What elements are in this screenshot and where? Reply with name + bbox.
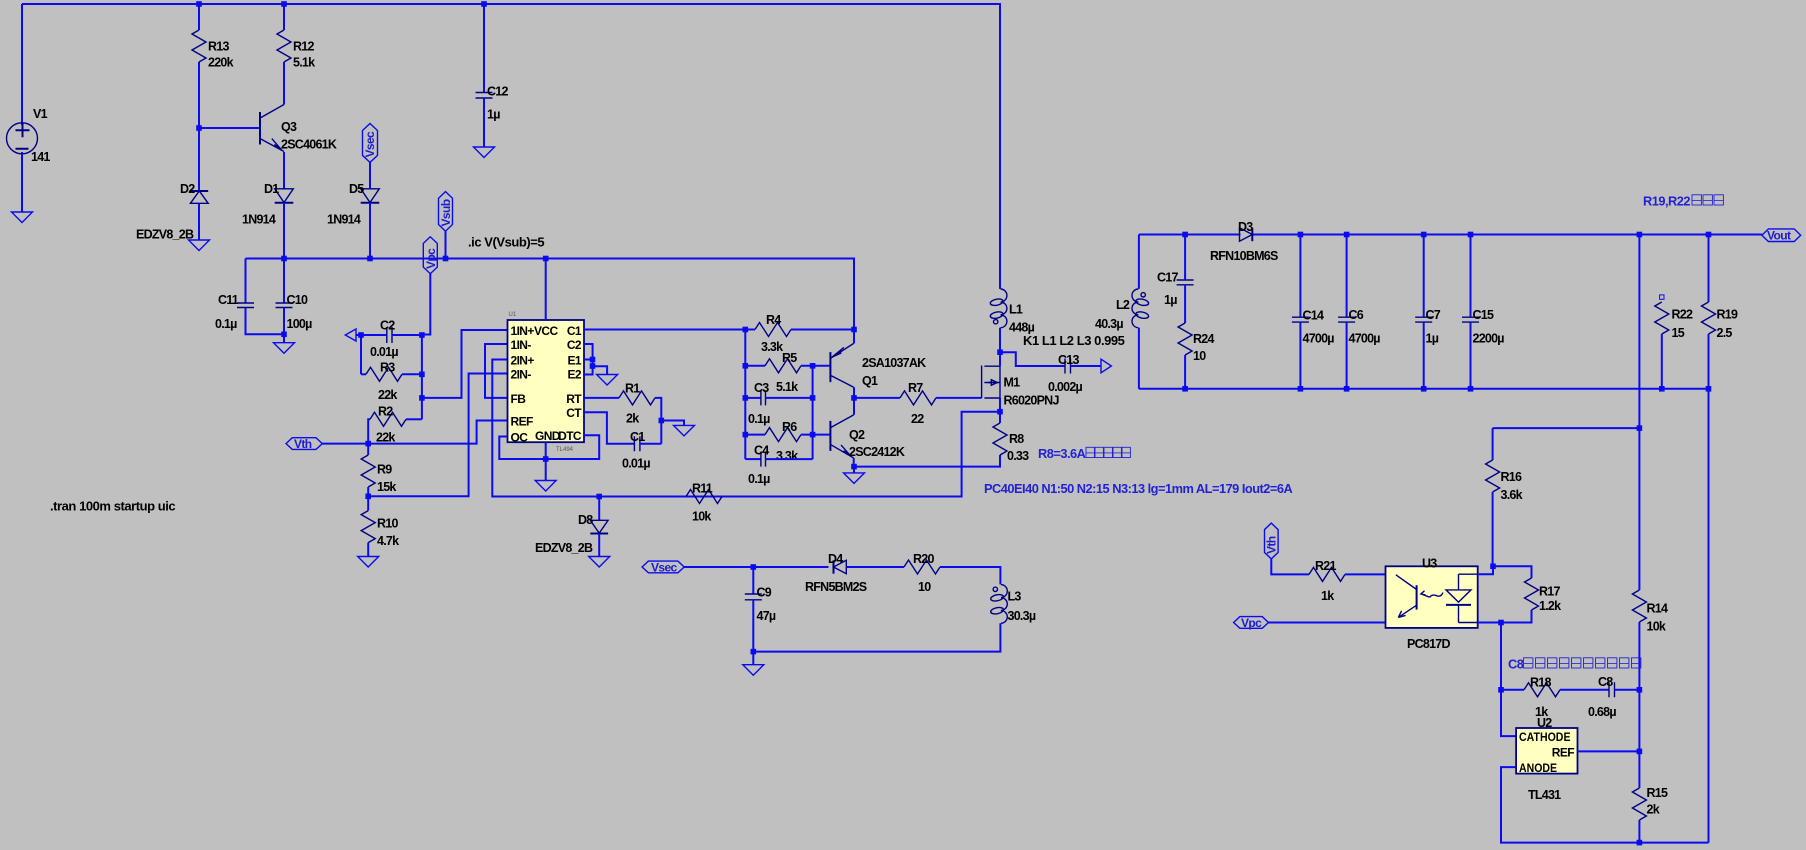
svg-text:220k: 220k: [208, 56, 234, 70]
svg-text:R8: R8: [1009, 432, 1024, 446]
svg-text:CT: CT: [566, 406, 582, 420]
wire opto emitter down to cathode: [1501, 623, 1516, 737]
svg-text:U1: U1: [509, 312, 517, 318]
svg-text:C10: C10: [287, 293, 308, 307]
svg-text:Q3: Q3: [281, 120, 297, 134]
node dot Q3 base: [196, 125, 202, 131]
svg-text:10k: 10k: [1647, 620, 1666, 634]
IC U1 TL494: [508, 320, 585, 442]
svg-text:PC40EI40 N1:50 N2:15 N3:13 lg=: PC40EI40 N1:50 N2:15 N3:13 lg=1mm AL=179…: [984, 481, 1293, 496]
wire TL431 ANODE to ground rail: [1501, 767, 1709, 843]
wire C1 pin to driver rail: [584, 329, 755, 331]
svg-text:R24: R24: [1193, 332, 1214, 346]
svg-text:R11: R11: [692, 482, 713, 496]
ground under C12: [474, 147, 495, 158]
net flag Vsec above D5: [363, 124, 378, 163]
wire secondary top rail: [1139, 234, 1241, 236]
svg-text:R20: R20: [913, 552, 934, 566]
svg-text:C11: C11: [218, 293, 239, 307]
node dot M1 source: [997, 409, 1003, 415]
svg-text:R3: R3: [380, 361, 395, 375]
svg-text:C12: C12: [487, 85, 508, 99]
svg-text:30.3µ: 30.3µ: [1008, 609, 1036, 623]
resistor R9: [367, 444, 369, 455]
svg-text:D3: D3: [1238, 220, 1253, 234]
svg-text:1IN+: 1IN+: [511, 324, 535, 338]
node dot C9 top: [751, 564, 757, 570]
net flag Vpc (feedback): [1234, 617, 1269, 629]
svg-text:C13: C13: [1058, 353, 1079, 367]
wire opto collector node: [1478, 566, 1532, 578]
svg-text:2.5: 2.5: [1717, 326, 1733, 340]
svg-text:EDZV8_2B: EDZV8_2B: [535, 541, 593, 555]
svg-text:2k: 2k: [626, 412, 639, 426]
mosfet M1 R6020PNJ: [981, 366, 983, 399]
wire VCC riser: [545, 259, 547, 321]
svg-text:2SA1037AK: 2SA1037AK: [862, 356, 926, 370]
transistor Q1 2SA1037AK: [853, 329, 855, 344]
svg-text:0.1µ: 0.1µ: [215, 317, 237, 331]
svg-text:Vpc: Vpc: [424, 248, 438, 269]
svg-text:R1: R1: [625, 382, 640, 396]
svg-text:2SC2412K: 2SC2412K: [849, 445, 905, 459]
svg-text:47µ: 47µ: [757, 609, 776, 623]
capacitor C6: [1346, 235, 1348, 318]
svg-text:C2: C2: [567, 338, 582, 352]
svg-text:R13: R13: [208, 40, 229, 54]
transistor Q3 2SC4061K: [259, 112, 261, 145]
svg-text:VCC: VCC: [534, 324, 558, 338]
wire R8 bottom return: [854, 455, 1000, 467]
svg-text:D4: D4: [828, 552, 843, 566]
svg-text:R21: R21: [1315, 559, 1336, 573]
svg-text:R6: R6: [782, 420, 797, 434]
svg-text:C9: C9: [757, 586, 772, 600]
resistor R21: [1309, 567, 1345, 581]
node dot top rail C12: [481, 1, 487, 7]
wire current-limit bus: [492, 412, 1000, 497]
wire TL431 REF: [1578, 750, 1640, 752]
svg-text:0.01µ: 0.01µ: [622, 457, 650, 471]
node dot C8 right: [1637, 687, 1643, 693]
svg-text:D2: D2: [180, 182, 195, 196]
svg-text:22: 22: [911, 412, 924, 426]
svg-text:D1: D1: [264, 182, 279, 196]
svg-text:4700µ: 4700µ: [1349, 332, 1381, 346]
wire error-amp node vertical: [361, 335, 422, 419]
svg-text:GND: GND: [535, 429, 561, 443]
net flag Vpc (vertical, straddling bus): [422, 274, 430, 335]
resistor R4: [755, 323, 791, 337]
svg-text:Vsec: Vsec: [363, 131, 377, 158]
svg-text:15: 15: [1672, 326, 1685, 340]
svg-text:Vsub: Vsub: [439, 199, 453, 226]
resistor R16: [1493, 428, 1640, 460]
capacitor C4: [745, 458, 761, 460]
svg-text:22k: 22k: [376, 431, 395, 445]
svg-text:3.3k: 3.3k: [761, 340, 783, 354]
node dot C2 left: [358, 332, 364, 338]
wire Q3 base: [199, 127, 259, 129]
svg-text:100µ: 100µ: [287, 317, 313, 331]
wire Vout sense column: [1638, 235, 1640, 591]
wire drain node to C13: [1000, 352, 1065, 366]
node dot RT/CT/ground: [659, 418, 665, 424]
ground at E1/E2: [597, 375, 618, 386]
port arrow flag left of C2: [345, 329, 356, 341]
resistor R2: [368, 419, 370, 443]
svg-text:R2: R2: [378, 405, 393, 419]
svg-text:D8: D8: [578, 513, 593, 527]
svg-text:U2: U2: [1537, 716, 1552, 730]
svg-text:R6020PNJ: R6020PNJ: [1004, 394, 1060, 408]
ground right of R1: [661, 421, 684, 426]
svg-text:5.1k: 5.1k: [293, 56, 315, 70]
svg-text:C7: C7: [1426, 308, 1441, 322]
wire RT row: [584, 397, 619, 399]
svg-text:5.1k: 5.1k: [776, 380, 798, 394]
svg-text:C4: C4: [754, 444, 769, 458]
svg-text:R18: R18: [1530, 676, 1551, 690]
wire C2/E1/E2 tie: [584, 344, 607, 375]
wire 2IN- net: [368, 374, 507, 497]
svg-text:Vout: Vout: [1767, 229, 1791, 243]
svg-text:40.3µ: 40.3µ: [1095, 317, 1123, 331]
svg-text:1IN-: 1IN-: [511, 338, 532, 352]
svg-text:1µ: 1µ: [487, 108, 500, 122]
resistor R10: [361, 511, 375, 543]
node dot top rail R12: [281, 1, 287, 7]
net flag Vth left: [286, 438, 322, 450]
svg-text:2200µ: 2200µ: [1473, 332, 1505, 346]
svg-text:.tran 100m startup uic: .tran 100m startup uic: [50, 499, 175, 514]
ground under C9: [752, 652, 754, 665]
svg-text:.ic V(Vsub)=5: .ic V(Vsub)=5: [468, 235, 544, 250]
svg-text:R10: R10: [377, 517, 398, 531]
svg-text:ANODE: ANODE: [1519, 761, 1557, 775]
node dot opto emitter: [1498, 620, 1504, 626]
svg-text:L3: L3: [1008, 590, 1022, 604]
node dot C2 right / Vpc attach: [419, 332, 425, 338]
wire 2IN+ net down: [492, 360, 599, 497]
zener diode D8 EDZV8_2B: [598, 497, 600, 521]
ground under R10: [358, 557, 379, 568]
svg-text:RFN10BM6S: RFN10BM6S: [1210, 249, 1278, 263]
inductor L1: [999, 286, 1001, 289]
ground under D8: [589, 557, 610, 568]
wire 1IN+ net: [422, 330, 508, 398]
svg-text:C1: C1: [630, 430, 645, 444]
capacitor C9: [752, 567, 754, 594]
svg-text:EDZV8_2B: EDZV8_2B: [136, 228, 194, 242]
resistor R24: [1178, 323, 1192, 355]
net flag Vsub: [445, 231, 447, 258]
svg-text:10k: 10k: [692, 510, 711, 524]
capacitor C2: [361, 334, 387, 336]
svg-text:R16: R16: [1501, 470, 1522, 484]
ground under D2: [189, 240, 210, 251]
svg-text:0.33: 0.33: [1007, 449, 1029, 463]
resistor R12: [283, 4, 285, 30]
svg-text:4700µ: 4700µ: [1303, 332, 1335, 346]
resistor R3: [361, 373, 366, 375]
svg-text:REF: REF: [1552, 746, 1574, 760]
svg-text:22k: 22k: [378, 388, 397, 402]
svg-text:L2: L2: [1116, 298, 1130, 312]
svg-text:1N914: 1N914: [327, 213, 361, 227]
resistor R7: [854, 397, 900, 399]
resistor R6: [745, 434, 765, 436]
capacitor C1: [634, 436, 640, 451]
capacitor C10: [283, 259, 285, 304]
svg-text:C3: C3: [754, 381, 769, 395]
svg-text:E2: E2: [568, 368, 582, 382]
svg-text:PC817D: PC817D: [1407, 637, 1450, 651]
node dot Q1/Q2 collectors: [851, 395, 857, 401]
svg-text:R14: R14: [1647, 602, 1668, 616]
wire CT row: [584, 412, 634, 444]
wire Vth row to REF: [322, 421, 507, 444]
svg-text:Vth: Vth: [294, 437, 312, 451]
svg-text:R8=3.6A: R8=3.6A: [1038, 446, 1086, 461]
capacitor C13: [1065, 359, 1071, 374]
resistor R20: [904, 560, 940, 574]
svg-text:RT: RT: [566, 392, 582, 406]
diode D1 1N914: [275, 189, 294, 203]
svg-text:R17: R17: [1539, 585, 1560, 599]
wire OC/DTC/GND loop: [499, 435, 599, 459]
svg-text:C17: C17: [1157, 271, 1178, 285]
inductor L3: [1001, 585, 1007, 624]
svg-text:1µ: 1µ: [1164, 293, 1177, 307]
ground under GND pin: [545, 459, 547, 481]
resistor R8: [999, 412, 1001, 423]
capacitor C15: [1470, 235, 1472, 318]
net flag Vout: [1762, 229, 1801, 242]
node dot opto collector / R16 / R17: [1490, 564, 1496, 570]
wire Vpc/Vsub supply bus: [246, 259, 855, 329]
svg-text:C6: C6: [1349, 308, 1364, 322]
svg-text:R19: R19: [1717, 308, 1738, 322]
svg-text:REF: REF: [511, 415, 533, 429]
capacitor C7: [1423, 235, 1425, 318]
net flag Vth (feedback): [1265, 523, 1279, 559]
svg-text:FB: FB: [511, 392, 527, 406]
capacitor C12: [483, 4, 485, 93]
svg-text:4.7k: 4.7k: [377, 534, 399, 548]
svg-text:C14: C14: [1303, 309, 1324, 323]
svg-text:R12: R12: [293, 40, 314, 54]
svg-text:R15: R15: [1647, 786, 1668, 800]
svg-text:2IN-: 2IN-: [511, 368, 532, 382]
ground under C10: [274, 343, 295, 354]
svg-text:10: 10: [1193, 349, 1206, 363]
capacitor C17: [1184, 235, 1186, 281]
svg-text:C15: C15: [1473, 308, 1494, 322]
svg-text:DTC: DTC: [558, 429, 582, 443]
svg-text:0.1µ: 0.1µ: [748, 412, 770, 426]
ground at Q2 emitter: [853, 467, 855, 473]
svg-text:1N914: 1N914: [242, 213, 276, 227]
resistor R5: [745, 365, 765, 367]
resistor R15: [1632, 788, 1646, 820]
svg-text:Vth: Vth: [1265, 536, 1279, 554]
diode D5 1N914: [361, 189, 380, 203]
resistor R11: [686, 490, 722, 504]
capacitor C8: [1609, 682, 1615, 697]
svg-text:0.1µ: 0.1µ: [748, 472, 770, 486]
voltage source V1: [21, 4, 23, 125]
wire Q3 emitter to D1: [283, 152, 285, 189]
svg-text:RFN5BM2S: RFN5BM2S: [805, 580, 867, 594]
resistor R13: [198, 4, 200, 30]
svg-text:2k: 2k: [1647, 803, 1660, 817]
svg-text:V1: V1: [33, 107, 48, 121]
svg-text:TL494: TL494: [556, 447, 574, 453]
node dot R9/R10: [365, 494, 371, 500]
svg-text:10: 10: [918, 580, 931, 594]
svg-text:Vpc: Vpc: [1241, 616, 1262, 630]
svg-text:2IN+: 2IN+: [511, 354, 535, 368]
svg-text:D5: D5: [349, 182, 364, 196]
zener diode D2 EDZV8_2B: [190, 191, 208, 203]
capacitor C3: [745, 397, 761, 399]
svg-text:R5: R5: [782, 351, 797, 365]
svg-text:R9: R9: [377, 463, 392, 477]
svg-text:OC: OC: [511, 431, 529, 445]
node dot C9 bottom: [751, 649, 757, 655]
resistor R1: [619, 391, 655, 405]
svg-text:R7: R7: [908, 381, 923, 395]
net flag Vsec (bottom): [642, 561, 684, 573]
svg-text:K1 L1 L2 L3 0.995: K1 L1 L2 L3 0.995: [1023, 333, 1125, 348]
svg-text:C2: C2: [380, 319, 395, 333]
svg-text:0.01µ: 0.01µ: [370, 345, 398, 359]
optocoupler U3 PC817D: [1386, 566, 1478, 628]
resistor R22 (floating top): [1660, 295, 1664, 299]
svg-text:C8: C8: [1598, 675, 1613, 689]
svg-text:141: 141: [31, 150, 50, 164]
svg-text:3.3k: 3.3k: [776, 449, 798, 463]
node dot top rail R13: [196, 1, 202, 7]
svg-text:C8: C8: [1508, 657, 1524, 672]
svg-text:15k: 15k: [377, 480, 396, 494]
resistor R17: [1525, 578, 1539, 610]
transistor Q2 2SC2412K: [829, 421, 831, 451]
svg-text:1k: 1k: [1321, 589, 1334, 603]
resistor R14: [1632, 590, 1646, 622]
svg-text:M1: M1: [1004, 376, 1021, 390]
svg-text:Q1: Q1: [862, 374, 878, 388]
capacitor C11: [245, 259, 247, 304]
svg-text:R19,R22: R19,R22: [1643, 194, 1690, 209]
svg-text:L1: L1: [1009, 303, 1023, 317]
node dot M1 drain: [997, 349, 1003, 355]
wire driver left rail: [744, 330, 746, 460]
wire secondary bottom rail: [1139, 388, 1709, 390]
svg-text:U3: U3: [1422, 557, 1437, 571]
ground under V1: [12, 212, 33, 223]
svg-text:2SC4061K: 2SC4061K: [281, 138, 337, 152]
svg-text:1.2k: 1.2k: [1539, 599, 1561, 613]
svg-text:R22: R22: [1672, 308, 1693, 322]
diode D4 RFN5BM2S: [834, 560, 847, 573]
wire Q1/Q2 base tie: [812, 366, 814, 459]
svg-text:E1: E1: [568, 354, 582, 368]
svg-text:R4: R4: [766, 313, 781, 327]
svg-text:C1: C1: [567, 324, 582, 338]
resistor R19: [1708, 235, 1710, 303]
port arrow flag right of C13: [1101, 359, 1111, 373]
svg-text:3.6k: 3.6k: [1501, 488, 1523, 502]
svg-text:0.002µ: 0.002µ: [1048, 380, 1083, 394]
wire top rail: [22, 4, 1000, 289]
node dot Q2 emitter / R8 return: [851, 464, 857, 470]
svg-text:0.68µ: 0.68µ: [1588, 705, 1616, 719]
svg-text:1µ: 1µ: [1426, 332, 1439, 346]
svg-text:Vsec: Vsec: [651, 561, 678, 575]
capacitor C14: [1299, 235, 1301, 318]
wire output gnd to TL431 anode rail: [1708, 389, 1710, 843]
wire 1IN- to FB: [485, 344, 508, 398]
IC U2 TL431: [1516, 728, 1577, 774]
inductor L2: [1138, 235, 1140, 289]
svg-text:TL431: TL431: [1528, 788, 1561, 802]
diode D3 RFN10BM6S: [1240, 228, 1253, 241]
svg-text:CATHODE: CATHODE: [1519, 730, 1571, 744]
svg-text:Q2: Q2: [849, 428, 865, 442]
resistor R18: [1501, 689, 1524, 691]
node dot R18 left: [1498, 687, 1504, 693]
